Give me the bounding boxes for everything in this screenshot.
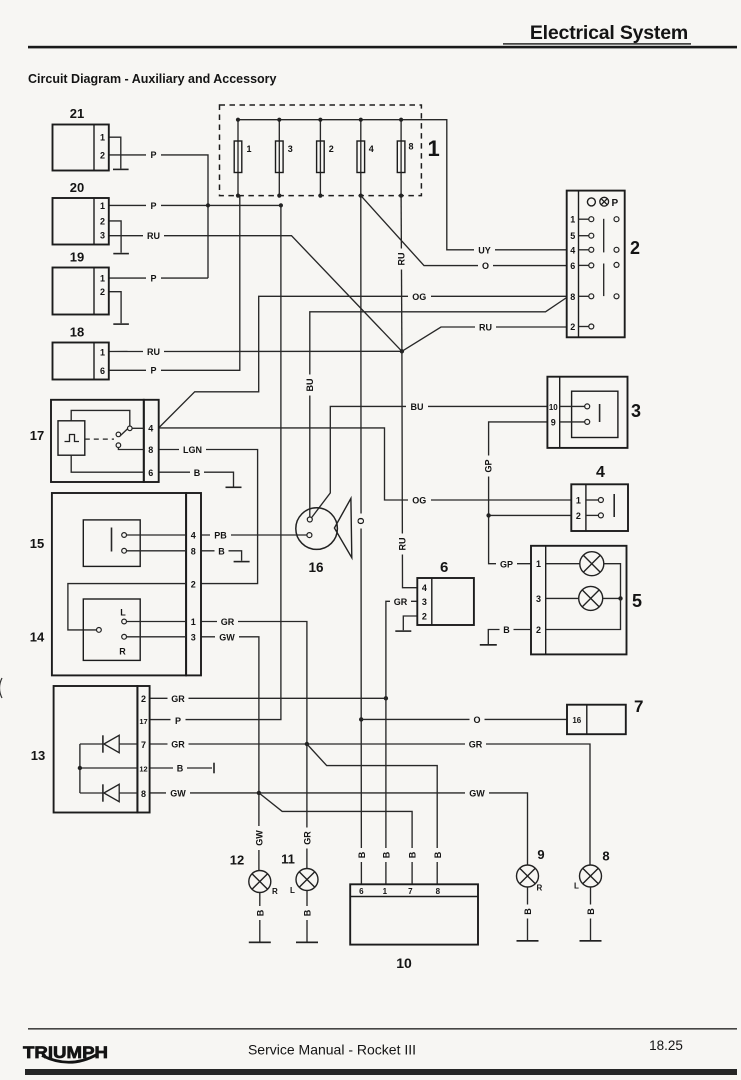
wire UY: fuse8 top to connector 2 pin4 — [401, 120, 567, 250]
svg-text:4: 4 — [596, 464, 605, 481]
fuse F1 — [234, 118, 251, 198]
label RU to 2 pin2 — [475, 322, 496, 333]
wire RU: junction down to 6 pin4 — [402, 351, 417, 587]
svg-text:1: 1 — [576, 495, 581, 505]
svg-text:4: 4 — [570, 245, 575, 255]
symbol crossed lamp — [600, 197, 609, 206]
switch 15 contact b — [122, 548, 127, 553]
svg-text:6: 6 — [440, 559, 448, 576]
wire lamp 5a to common — [604, 564, 621, 599]
label BU vertical horn riser — [304, 375, 315, 396]
wire P: 21 pin2 to vertical — [109, 155, 208, 278]
svg-text:O: O — [473, 715, 480, 725]
symbol lamp circle — [587, 198, 595, 206]
svg-text:PB: PB — [214, 531, 227, 541]
svg-text:GR: GR — [469, 740, 483, 750]
switch 15 bar — [111, 528, 113, 552]
svg-text:GW: GW — [469, 789, 485, 799]
wire ground stub 21 pin1 — [109, 137, 121, 168]
label B 15 pin8 — [215, 545, 229, 556]
svg-text:10: 10 — [396, 955, 412, 971]
wire BU: horn top diagonal to 3 pin10 — [312, 406, 548, 517]
node lamp common — [618, 596, 622, 600]
node GP junction — [486, 513, 490, 517]
wire BU: horn top up to connector 2 pin8 — [310, 298, 567, 518]
svg-text:4: 4 — [422, 583, 427, 593]
svg-text:P: P — [150, 274, 156, 284]
svg-text:2: 2 — [100, 287, 105, 297]
svg-text:1: 1 — [191, 617, 196, 627]
wire RU: 20 pin3 row and diagonal to junction — [109, 236, 402, 352]
label GR 13 pin2 — [168, 693, 189, 704]
pulse symbol — [65, 435, 80, 442]
svg-text:Service Manual - Rocket III: Service Manual - Rocket III — [248, 1042, 416, 1058]
svg-text:1: 1 — [100, 347, 105, 357]
wire ground stub 20 pin2 — [109, 221, 121, 253]
svg-text:GR: GR — [221, 617, 235, 627]
svg-text:GW: GW — [219, 633, 235, 643]
svg-text:1: 1 — [247, 144, 252, 154]
svg-text:3: 3 — [536, 594, 541, 604]
svg-text:GR: GR — [394, 597, 408, 607]
svg-text:GP: GP — [500, 559, 513, 569]
switch unit 4 body — [571, 484, 628, 531]
label GW 14 pin3 — [215, 631, 239, 642]
svg-text:P: P — [150, 201, 156, 211]
switch bar of 4 — [613, 494, 615, 517]
lamp 11 — [281, 852, 318, 944]
svg-text:GR: GR — [302, 831, 312, 845]
svg-text:4: 4 — [369, 144, 374, 154]
svg-text:B: B — [408, 851, 418, 858]
svg-text:2: 2 — [329, 144, 334, 154]
lamp 12 — [230, 853, 278, 944]
wire coil top to pin4 node — [71, 410, 130, 426]
connector block 10 — [350, 884, 478, 971]
wire pin 2 internal to switch 14 common — [68, 584, 186, 630]
wire ground stub 19 pin2 — [109, 292, 121, 324]
svg-text:2: 2 — [630, 238, 640, 258]
wire O: branch to 7 pin16 — [361, 718, 567, 720]
node diode common — [78, 766, 82, 770]
svg-text:7: 7 — [141, 740, 146, 750]
node GR junction — [305, 742, 309, 746]
svg-text:8: 8 — [409, 142, 414, 152]
node relay common — [128, 426, 133, 431]
svg-text:2: 2 — [570, 322, 575, 332]
svg-text:RU: RU — [479, 323, 492, 333]
svg-text:B: B — [218, 547, 225, 557]
svg-text:8: 8 — [191, 547, 196, 557]
wire B: 15 pin8 to ground — [201, 551, 242, 561]
label B vertical lamp 9 — [522, 905, 533, 919]
diode unit 13 body — [54, 686, 138, 813]
relay dashed link — [85, 438, 114, 440]
wire GR: branch to box 10 pin8 — [307, 744, 437, 884]
lamp 5a — [580, 552, 604, 576]
svg-text:1: 1 — [536, 559, 541, 569]
wire fuse bus — [238, 119, 401, 121]
svg-text:2: 2 — [141, 694, 146, 704]
flasher unit 6 body — [417, 578, 474, 625]
wire B: 17 pin6 to ground — [159, 472, 234, 486]
switch 14 R contact — [122, 634, 127, 639]
svg-text:10: 10 — [549, 403, 558, 412]
svg-text:RU: RU — [398, 538, 408, 551]
fusebox 1 dashed outline — [220, 105, 422, 196]
wire O: fuse4 diagonal to connector 2 pin6 — [361, 196, 567, 266]
svg-text:R: R — [272, 887, 278, 896]
label RU 18 pin1 — [143, 346, 164, 357]
svg-text:Circuit Diagram - Auxiliary an: Circuit Diagram - Auxiliary and Accessor… — [28, 72, 277, 86]
svg-text:O: O — [356, 517, 366, 524]
wire LGN: 17 pin8 to 15 pin2 — [159, 450, 258, 584]
wire R contact to pin 3 — [127, 636, 187, 638]
svg-text:3: 3 — [631, 401, 641, 421]
wire coil bottom to pin 6 — [71, 455, 144, 472]
connector 21 — [53, 106, 109, 171]
svg-text:3: 3 — [100, 231, 105, 241]
wire GR: 13 pin7 row to corner — [150, 744, 590, 865]
wire OG: 17 pin4 up branch to connector 2 pin8 — [159, 296, 567, 428]
label GR 13 pin7 — [168, 739, 189, 750]
wire GR: 13 pin2 row — [150, 697, 386, 699]
wire 15 contact a to pin 4 — [127, 534, 187, 536]
svg-text:9: 9 — [537, 847, 544, 862]
svg-text:4: 4 — [148, 424, 153, 434]
wire O: fuse4 long vertical — [360, 196, 363, 885]
svg-text:2: 2 — [100, 216, 105, 226]
svg-text:O: O — [482, 261, 489, 271]
wire P: 18 pin6 row to fuse1 tail — [109, 196, 240, 371]
label UY — [474, 244, 495, 255]
label B 5 pin2 — [500, 624, 514, 635]
label P 13 pin17 — [171, 715, 186, 726]
fuse F4 — [357, 118, 374, 198]
wire OG: 17 pin4 right branch to 4 pin1 — [159, 428, 572, 500]
ground 20 pin2 — [113, 253, 129, 255]
wire common to 5 pin2 — [546, 598, 621, 629]
lamp 9 — [517, 847, 545, 942]
node RU junction — [400, 349, 404, 353]
label LGN 17 pin8 — [179, 444, 206, 455]
connector 2 body — [567, 191, 625, 338]
label O to 2 pin6 — [478, 260, 493, 271]
label B 13 pin12 — [173, 763, 187, 774]
svg-text:8: 8 — [602, 849, 609, 864]
ground 6 pin2 — [395, 630, 411, 632]
svg-text:17: 17 — [30, 428, 44, 443]
terminator 13 pin12 — [213, 763, 215, 774]
contact bar upper — [603, 219, 605, 253]
svg-text:6: 6 — [570, 261, 575, 271]
svg-text:GR: GR — [171, 740, 185, 750]
horn 16 body — [296, 508, 338, 550]
svg-text:1: 1 — [570, 215, 575, 225]
svg-text:6: 6 — [148, 468, 153, 478]
svg-text:3: 3 — [422, 597, 427, 607]
svg-text:P: P — [175, 716, 181, 726]
wire L contact to pin 1 — [127, 621, 187, 623]
svg-text:3: 3 — [288, 144, 293, 154]
label B vertical box10 pin8 — [432, 848, 443, 862]
label B vertical box10 pin7 — [407, 848, 418, 862]
label PB 15 pin4 — [210, 530, 231, 541]
wire lamp 12 to ground — [259, 893, 261, 942]
ground lamp 11 — [296, 942, 318, 944]
horn terminal bottom — [307, 533, 312, 538]
ground lamp 8 — [580, 940, 602, 942]
wire 5 pin3 to lamp 5b — [546, 597, 579, 599]
wire lower contact to pin 8 — [118, 448, 143, 450]
svg-text:17: 17 — [139, 717, 147, 726]
wire lamp 9 to ground — [527, 887, 529, 940]
svg-text:B: B — [586, 908, 596, 915]
svg-text:1: 1 — [100, 133, 105, 143]
header rule thick — [28, 46, 737, 49]
svg-text:L: L — [120, 607, 126, 617]
svg-text:B: B — [503, 625, 510, 635]
wire node to pin 4 — [132, 427, 144, 429]
svg-text:R: R — [119, 646, 126, 656]
svg-text:14: 14 — [30, 630, 45, 645]
ground 15 pin8 — [234, 561, 250, 563]
svg-text:GW: GW — [170, 789, 186, 799]
label RU vertical fuse8 tail — [395, 249, 406, 270]
svg-text:8: 8 — [436, 887, 441, 896]
svg-text:5: 5 — [570, 231, 575, 241]
svg-text:21: 21 — [70, 106, 84, 121]
label GW right — [465, 787, 489, 798]
node GR 13pin2 junction — [384, 696, 388, 700]
svg-text:B: B — [303, 909, 313, 916]
label P 18 pin6 — [146, 365, 161, 376]
node P junction at vertical — [206, 203, 210, 207]
label OG to 2 pin8 — [408, 291, 431, 302]
fuse F2 — [317, 118, 334, 198]
svg-text:2: 2 — [576, 511, 581, 521]
svg-text:R: R — [537, 884, 543, 893]
svg-text:2: 2 — [536, 625, 541, 635]
node GW junction — [257, 791, 261, 795]
connector 18 — [53, 325, 109, 380]
wire B: 13 pin12 stub — [150, 767, 212, 769]
svg-text:GR: GR — [171, 694, 185, 704]
svg-text:7: 7 — [408, 887, 413, 896]
svg-text:P: P — [150, 366, 156, 376]
svg-text:5: 5 — [632, 591, 642, 611]
connector 20 — [53, 180, 109, 245]
wire P: 20 pin1 row to fuse3 — [109, 204, 281, 206]
ground 19 pin2 — [113, 323, 129, 325]
relay 17 body — [51, 400, 144, 482]
label GR to 6 pin3 — [390, 596, 411, 607]
label GR 14 pin1 — [217, 616, 238, 627]
label GP vertical — [483, 456, 494, 477]
wire GP: 3 pin9 down to 5 pin1 — [489, 422, 548, 564]
svg-text:2: 2 — [191, 579, 196, 589]
svg-text:B: B — [381, 851, 391, 858]
horn trumpet — [334, 498, 351, 557]
svg-text:P: P — [612, 198, 619, 209]
svg-text:1: 1 — [100, 274, 105, 284]
svg-text:P: P — [150, 150, 156, 160]
footer rule thin — [28, 1028, 737, 1029]
svg-text:16: 16 — [572, 716, 581, 725]
svg-text:UY: UY — [478, 245, 491, 255]
relay switch lever — [120, 429, 127, 436]
relay coil box — [58, 421, 85, 455]
label OG to 4 pin1 — [408, 495, 431, 506]
switch 15 contact a — [122, 533, 127, 538]
svg-text:BU: BU — [305, 379, 315, 392]
connector 7 body — [567, 705, 626, 735]
svg-text:B: B — [194, 468, 201, 478]
svg-text:OG: OG — [412, 292, 426, 302]
svg-text:L: L — [290, 886, 295, 895]
svg-text:B: B — [523, 908, 533, 915]
svg-text:1: 1 — [100, 201, 105, 211]
ground 17 pin6 — [226, 487, 242, 489]
label B vertical lamp 12 — [254, 906, 265, 920]
wire RU: 18 pin1 row — [109, 350, 402, 352]
wire GW: 14 pin3 down to lamp 12 — [201, 637, 259, 871]
horn terminal top — [307, 517, 312, 522]
svg-text:8: 8 — [148, 445, 153, 455]
switch 14 L contact — [122, 619, 127, 624]
ground 21 pin1 — [113, 169, 129, 171]
svg-text:OG: OG — [412, 496, 426, 506]
wire diode common to pin 12 — [79, 744, 81, 793]
label B vertical lamp 11 — [302, 906, 313, 920]
label B vertical lamp 8 — [585, 905, 596, 919]
svg-text:13: 13 — [31, 748, 45, 763]
label GW 13 pin8 — [166, 787, 190, 798]
wire P: 19 pin1 row — [109, 277, 208, 279]
lamp unit 5 body — [531, 546, 627, 655]
svg-text:6: 6 — [100, 366, 105, 376]
svg-text:TRIUMPH: TRIUMPH — [23, 1043, 108, 1062]
wire GW: 13 pin8 row to corner and lamp 9 — [150, 793, 528, 865]
label RU 20 pin3 — [143, 230, 164, 241]
svg-text:RU: RU — [396, 253, 406, 266]
wire RU: fuse8 tail vertical down to node — [400, 196, 403, 352]
svg-text:B: B — [255, 909, 265, 916]
relay switch contacts — [116, 432, 121, 437]
wire RU: junction jog to connector 2 pin2 — [402, 327, 567, 351]
wire B: 6 pin2 to ground — [403, 616, 417, 630]
svg-text:9: 9 — [551, 417, 556, 427]
label BU to 3 pin10 — [406, 401, 428, 412]
svg-text:RU: RU — [147, 231, 160, 241]
wire GW: branch to box 10 pin7 — [259, 793, 412, 884]
svg-text:6: 6 — [359, 887, 364, 896]
label GR right — [465, 739, 486, 750]
svg-text:B: B — [357, 851, 367, 858]
node O junction — [359, 717, 363, 721]
label B vertical box10 pin6 — [356, 848, 367, 862]
svg-text:LGN: LGN — [183, 445, 202, 455]
switch unit 15/14 body — [52, 493, 186, 675]
svg-text:GP: GP — [484, 459, 494, 472]
svg-text:12: 12 — [230, 853, 244, 868]
svg-text:3: 3 — [191, 632, 196, 642]
svg-text:4: 4 — [191, 531, 196, 541]
node P junction at fuse3 — [279, 203, 283, 207]
switch unit 3 body — [547, 377, 627, 448]
switch 14 common contact — [97, 628, 102, 633]
svg-text:B: B — [177, 764, 184, 774]
wire PB: 15 pin4 to horn — [201, 534, 307, 536]
label O vertical fuse4 tail — [355, 514, 366, 529]
svg-text:16: 16 — [308, 560, 324, 575]
fuse F8 — [397, 118, 413, 198]
svg-text:RU: RU — [147, 347, 160, 357]
svg-text:2: 2 — [422, 612, 427, 622]
label O to 7 pin16 — [470, 714, 485, 725]
switch 15 inner box — [83, 520, 140, 567]
svg-text:BU: BU — [411, 402, 424, 412]
svg-text:20: 20 — [70, 180, 84, 195]
wire lamp 11 to ground — [306, 891, 308, 942]
svg-text:11: 11 — [281, 852, 295, 867]
label B vertical box10 pin1 — [380, 848, 391, 862]
label B 17 pin6 — [190, 467, 204, 478]
label GP to 5 pin1 — [496, 558, 517, 569]
contact bar lower — [603, 264, 605, 297]
wire 15 contact b to pin 8 — [127, 550, 187, 552]
svg-text:L: L — [574, 882, 579, 891]
svg-text:1: 1 — [383, 887, 388, 896]
svg-text:8: 8 — [570, 292, 575, 302]
svg-text:Electrical System: Electrical System — [530, 22, 688, 44]
svg-text:1: 1 — [428, 136, 440, 161]
wire P: fuse3 long vertical to 13 pin17 — [150, 205, 281, 719]
ground lamp 12 — [249, 942, 271, 944]
footer rule thick — [25, 1069, 737, 1075]
wire GR: vertical 6 pin3 to box 10 pin1 — [386, 601, 417, 884]
svg-text:18.25: 18.25 — [649, 1038, 683, 1053]
label RU vertical to 6 pin4 — [397, 534, 408, 555]
label GW vertical lamp 12 — [253, 826, 264, 850]
Triumph logo — [23, 1043, 108, 1062]
svg-text:12: 12 — [139, 765, 147, 774]
switch bar of 3 — [599, 404, 601, 422]
svg-text:18: 18 — [70, 325, 84, 340]
wire lamp 5b to common — [603, 597, 621, 599]
ground 5 pin2 — [480, 644, 497, 646]
label GR vertical lamp 11 — [301, 828, 312, 849]
title underline thin — [503, 43, 691, 44]
svg-text:B: B — [433, 851, 443, 858]
wire lamp 8 to ground — [590, 887, 592, 940]
svg-text:19: 19 — [70, 250, 84, 265]
switch 14 inner box — [83, 599, 140, 660]
svg-text:GW: GW — [254, 830, 264, 846]
wire GR: 14 pin1 down to lamp 11 — [201, 622, 307, 869]
lamp 8 — [574, 849, 610, 942]
diode D1 — [80, 735, 137, 752]
left edge artifact — [0, 678, 2, 698]
ground lamp 9 — [517, 940, 539, 942]
label P 19 pin1 — [146, 272, 161, 283]
wire 5 pin1 to lamp 5a — [546, 563, 580, 565]
fuse F3 — [276, 118, 293, 198]
svg-text:2: 2 — [100, 150, 105, 160]
connector 19 — [53, 250, 109, 315]
label P 21 pin2 — [146, 149, 161, 160]
label P 20 pin1 — [146, 200, 161, 211]
